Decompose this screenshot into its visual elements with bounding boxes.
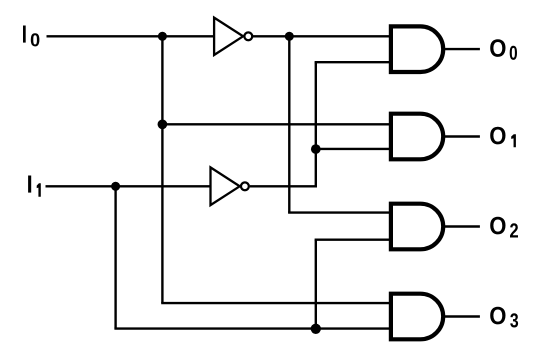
node B junction dot I0 branch xyxy=(158,119,168,129)
node D junction dot I1 xyxy=(111,182,120,191)
wire O2 output xyxy=(445,225,480,227)
wire nI1 to AND1 bottom input xyxy=(315,61,391,63)
inverter U2 triangle xyxy=(211,167,240,205)
wire nI0 vertical drop xyxy=(288,36,290,212)
wire I1 vertical drop xyxy=(114,186,116,328)
wire I1 to AND4 bottom input xyxy=(114,327,391,329)
wire nI0 to AND3 top input xyxy=(288,211,391,213)
wire I0 horizontal xyxy=(47,35,216,37)
label O1 xyxy=(490,127,516,148)
node A junction dot I0 xyxy=(158,32,167,41)
label O0 xyxy=(490,39,517,60)
wire O0 output xyxy=(445,48,480,50)
inverter U1 triangle xyxy=(214,18,243,55)
wire nI1 vertical rise xyxy=(315,62,317,187)
wire nI1 to AND2 bottom input xyxy=(316,148,391,150)
AND gate U4 (O1) xyxy=(391,114,443,160)
AND gate U5 (O2) xyxy=(391,204,443,250)
wire O3 output xyxy=(445,315,480,317)
node E junction dot I1 bottom xyxy=(311,324,321,334)
wire I0 vertical drop xyxy=(161,36,163,303)
label O2 xyxy=(490,217,518,238)
wire I0 branch to AND2 top input xyxy=(162,123,391,125)
wire I1 horizontal xyxy=(46,185,212,187)
label I0 xyxy=(23,26,39,47)
label O3 xyxy=(490,307,518,328)
node F junction dot nI1 xyxy=(311,144,321,154)
inverter U1 bubble xyxy=(244,32,252,40)
inverter U2 bubble xyxy=(241,182,249,190)
wire U1 output to AND1 top input xyxy=(252,35,391,37)
AND gate U6 (O3) xyxy=(391,294,443,340)
label I1 xyxy=(28,176,41,197)
wire U2 output xyxy=(250,185,316,187)
wire I1 to AND3 bottom input xyxy=(315,238,391,240)
node C junction dot nI0 xyxy=(285,32,294,41)
AND gate U3 (O0) xyxy=(391,26,443,72)
wire O1 output xyxy=(445,135,480,137)
wire I1 vertical rise to AND3 xyxy=(315,240,317,329)
wire I0 branch to AND4 top input xyxy=(161,302,391,304)
